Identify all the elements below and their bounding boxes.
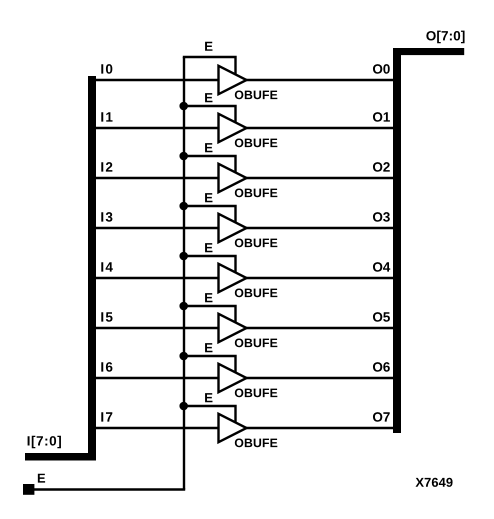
net label I[7:0] [28,436,61,449]
wire O5 (output) [246,327,394,329]
wire I3 (input) [96,227,220,229]
value label OBUFE (buffer 7) [235,439,278,448]
buffer U2 OBUFE (tri-state output buffer) [219,164,247,192]
label I6 [101,362,112,372]
label I7 [101,412,112,421]
wire O4 (output) [246,277,394,279]
wire I6 (input) [96,377,220,379]
wire: enable bracket into buffer 5 [183,306,236,323]
E input terminal (black square) [23,484,34,495]
buffer U6 OBUFE (tri-state output buffer) [219,364,247,392]
wire: enable bracket into buffer 6 [183,356,236,373]
junction dot (enable net, row 3) [179,202,188,211]
value label OBUFE (buffer 4) [235,289,278,298]
label O5 [373,312,390,322]
value label OBUFE (buffer 5) [235,339,278,348]
input bus I[7:0] (thick L-shaped bus) [25,76,96,461]
wire I0 (input) [96,79,220,81]
label E (enable pin of buffer 2) [205,143,212,152]
junction dot (enable net, row 5) [179,302,188,311]
label O3 [373,212,390,222]
label O2 [373,162,390,172]
label I0 [101,64,112,74]
label E (enable pin of buffer 5) [205,293,212,302]
value label OBUFE (buffer 2) [235,189,278,198]
wire: enable bracket into buffer 7 [183,406,236,423]
label O7 [373,412,390,422]
wire I2 (input) [96,177,220,179]
wire: enable bracket into buffer 0 [183,57,236,75]
wire I7 (input) [96,427,220,429]
buffer U5 OBUFE (tri-state output buffer) [219,314,247,342]
label O1 [373,112,390,122]
label I3 [101,212,112,222]
label E (bottom enable input) [38,474,45,483]
junction dot (enable net, row 6) [179,352,188,361]
buffer U3 OBUFE (tri-state output buffer) [219,214,247,242]
wire O1 (output) [246,127,394,129]
wire: enable bracket into buffer 3 [183,206,236,223]
wire O0 (output) [246,79,394,81]
net label O[7:0] [426,31,464,44]
wire: enable net vertical (E) [183,57,185,490]
label E (enable pin of buffer 4) [205,243,212,252]
label O4 [373,262,390,272]
wire O6 (output) [246,377,394,379]
label E (enable pin of buffer 7) [205,393,212,402]
junction dot (enable net, row 7) [179,402,188,411]
label E (enable pin of buffer 0) [205,42,212,51]
wire: enable net horizontal to E terminal [33,488,185,490]
junction dot (enable net, row 1) [179,102,188,111]
label E (enable pin of buffer 1) [205,93,212,102]
label E (enable pin of buffer 3) [205,193,212,202]
buffer U1 OBUFE (tri-state output buffer) [219,114,247,142]
value label OBUFE (buffer 1) [235,139,278,148]
buffer U4 OBUFE (tri-state output buffer) [219,264,247,292]
label I5 [101,312,112,321]
buffer U7 OBUFE (tri-state output buffer) [219,414,247,442]
value label OBUFE (buffer 6) [235,389,278,398]
wire O7 (output) [246,427,394,429]
output bus O[7:0] (thick L-shaped bus) [393,48,464,433]
wire O3 (output) [246,227,394,229]
wire: enable bracket into buffer 2 [183,156,236,173]
label I1 [101,112,112,121]
label O0 [373,64,390,74]
label I2 [101,162,112,171]
wire: enable bracket into buffer 4 [183,256,236,273]
label O6 [373,362,390,372]
wire I4 (input) [96,277,220,279]
wire O2 (output) [246,177,394,179]
wire: enable bracket into buffer 1 [183,106,236,123]
label E (enable pin of buffer 6) [205,343,212,352]
junction dot (enable net, row 2) [179,152,188,161]
junction dot (enable net, row 4) [179,252,188,261]
buffer U0 OBUFE (tri-state output buffer) [219,66,247,94]
value label OBUFE (buffer 0) [235,91,278,100]
value label OBUFE (buffer 3) [235,239,278,248]
part number X7649 [416,478,453,487]
wire I1 (input) [96,127,220,129]
label I4 [101,262,113,271]
wire I5 (input) [96,327,220,329]
